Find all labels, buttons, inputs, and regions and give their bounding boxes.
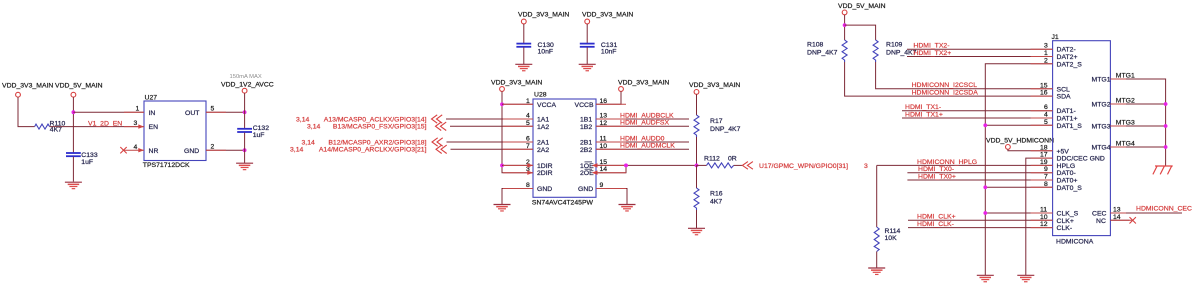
resistor R110: [35, 121, 66, 134]
ground (R114): [868, 268, 885, 274]
svg-text:3: 3: [134, 120, 138, 127]
pin arrow 2DIR: [527, 171, 533, 175]
ground (C130): [515, 64, 532, 70]
svg-text:1DIR: 1DIR: [537, 163, 553, 170]
svg-text:HDMICONA: HDMICONA: [1056, 239, 1094, 246]
svg-text:12: 12: [600, 120, 608, 127]
node junction on 5V line to IN: [72, 110, 76, 114]
pin arrow 2OE: [592, 171, 598, 175]
power flag VDD_3V3_MAIN (C130): [518, 12, 569, 24]
wire VCCB: [596, 91, 621, 104]
svg-text:VDD_3V3_MAIN: VDD_3V3_MAIN: [689, 82, 740, 89]
svg-text:5: 5: [526, 120, 530, 127]
node 2OE junction redraw: [624, 164, 628, 168]
svg-text:HDMI_AUDMCLK: HDMI_AUDMCLK: [620, 143, 675, 150]
svg-text:2B1: 2B1: [580, 140, 592, 147]
wire R17 to node: [696, 137, 698, 165]
resistor R17: [694, 115, 741, 137]
svg-text:EN: EN: [149, 124, 159, 131]
svg-text:HDMI_TX2-: HDMI_TX2-: [913, 43, 949, 50]
svg-text:10K: 10K: [885, 235, 898, 242]
wire HDMI_TX1+: [902, 117, 1053, 119]
svg-text:2B2: 2B2: [580, 147, 592, 154]
svg-text:HDMI_AUDBCLK: HDMI_AUDBCLK: [620, 112, 674, 119]
wire HDMI_CLK-: [908, 227, 1053, 229]
resistor R109: [873, 40, 917, 62]
svg-text:MTG1: MTG1: [1092, 77, 1111, 84]
wire 1A2: [450, 125, 533, 127]
off-page connector row4: [436, 145, 447, 153]
power flag VDD_3V3_MAIN (left): [2, 82, 53, 97]
svg-text:VDD_3V3_MAIN: VDD_3V3_MAIN: [618, 79, 669, 86]
svg-text:VDD_3V3_MAIN: VDD_3V3_MAIN: [2, 82, 53, 89]
svg-text:HDMICONN_I2CSDA: HDMICONN_I2CSDA: [912, 90, 979, 97]
svg-text:14: 14: [1113, 214, 1121, 221]
wire MTG3: [1110, 125, 1165, 127]
svg-text:6: 6: [1044, 104, 1048, 111]
node R108/R109 junction: [843, 23, 847, 27]
wire R114 to ground: [876, 252, 878, 268]
connector J1 box: [1052, 34, 1111, 246]
pin arrow 1OE: [592, 163, 598, 167]
svg-text:19: 19: [1040, 159, 1048, 166]
wire 1B2 HDMI_AUDFSX: [596, 125, 689, 127]
svg-text:1: 1: [526, 98, 530, 105]
ground (C133): [65, 182, 82, 188]
no-connect X on NR: [120, 147, 126, 153]
wire HDMI_TX0-: [907, 172, 1052, 174]
pin arrow EN: [138, 124, 144, 128]
off-page connector row3: [432, 138, 443, 146]
wire MTG2: [1110, 103, 1165, 105]
svg-text:NR: NR: [149, 148, 159, 155]
svg-text:10: 10: [1040, 214, 1048, 221]
svg-text:CLK+: CLK+: [1057, 218, 1074, 225]
svg-text:GND: GND: [537, 186, 552, 193]
svg-text:DAT1-: DAT1-: [1057, 108, 1076, 115]
svg-text:R109: R109: [886, 41, 903, 48]
svg-text:2OE: 2OE: [580, 170, 594, 177]
node OE pull junction: [695, 164, 699, 168]
svg-text:+5V: +5V: [1057, 148, 1070, 155]
wire from VDD_3V3_MAIN down to R110: [18, 97, 35, 127]
wire HDMI_TX1-: [902, 110, 1053, 112]
red pin stubs U28: [503, 104, 626, 188]
ground (U28 pin9): [619, 205, 636, 211]
svg-text:MTG1: MTG1: [1116, 73, 1135, 80]
red pin stubs J1: [1031, 49, 1133, 227]
wire 2B1 HDMI_AUDD0: [596, 141, 689, 143]
svg-text:VDD_5V_MAIN: VDD_5V_MAIN: [838, 3, 886, 10]
node MTG2 junction: [1164, 102, 1168, 106]
resistor R112: [697, 155, 743, 168]
svg-text:DAT0+: DAT0+: [1057, 178, 1078, 185]
svg-text:OUT: OUT: [185, 110, 200, 117]
wire DAT0_S shield: [985, 186, 1052, 188]
svg-text:MTG2: MTG2: [1092, 102, 1111, 109]
node GND junction: [243, 148, 247, 152]
svg-text:HDMI_CLK-: HDMI_CLK-: [917, 221, 954, 228]
svg-text:B12/MCASP0_AXR2/GPIO3[18]: B12/MCASP0_AXR2/GPIO3[18]: [328, 139, 426, 146]
red pin stubs U27: [124, 112, 226, 150]
svg-text:DAT0_S: DAT0_S: [1057, 185, 1083, 192]
wire MTG4: [1110, 146, 1165, 148]
power flag VDD_5V_HDMICONN: [986, 138, 1054, 150]
wire CEC: [1110, 212, 1182, 214]
svg-text:CLK-: CLK-: [1057, 225, 1073, 232]
wire R109 to I2CSCL: [876, 62, 1053, 89]
svg-text:U28: U28: [534, 91, 547, 98]
pin arrow 1DIR: [527, 163, 533, 167]
svg-text:4: 4: [526, 113, 530, 120]
svg-text:DAT2_S: DAT2_S: [1057, 61, 1083, 68]
node 1DIR junction: [500, 164, 504, 168]
svg-text:3: 3: [1044, 43, 1048, 50]
wire 2B2 HDMI_AUDMCLK: [596, 148, 689, 150]
svg-text:7: 7: [1044, 174, 1048, 181]
svg-text:R17: R17: [710, 118, 723, 125]
wire flag down: [844, 15, 846, 40]
capacitor C131: [580, 24, 618, 64]
wire C132 to GND rail: [244, 133, 246, 164]
node DAT0_S junction: [983, 185, 987, 189]
ground (shield line A): [977, 275, 994, 281]
wire R108 to I2CSDA: [845, 62, 1053, 96]
off-page connector row2: [436, 122, 447, 130]
wire GND pin8: [502, 189, 533, 205]
ground (C131): [579, 64, 596, 70]
no-connect X on pin 14: [1130, 217, 1136, 223]
svg-text:MTG4: MTG4: [1116, 141, 1135, 148]
svg-text:VCCB: VCCB: [575, 102, 594, 109]
resistor R16: [694, 188, 723, 210]
svg-text:1B1: 1B1: [580, 117, 592, 124]
svg-text:R16: R16: [710, 191, 723, 198]
svg-text:11: 11: [1040, 207, 1047, 214]
svg-text:4K7: 4K7: [50, 127, 62, 134]
svg-text:DAT1+: DAT1+: [1057, 116, 1078, 123]
svg-text:16: 16: [600, 98, 608, 105]
svg-text:HDMI_CLK+: HDMI_CLK+: [917, 214, 956, 221]
svg-text:7: 7: [526, 143, 530, 150]
svg-text:2A1: 2A1: [537, 140, 549, 147]
svg-text:13: 13: [600, 113, 608, 120]
wire GND pin9: [596, 189, 627, 205]
svg-text:B13/MCASP0_FSX/GPIO3[15]: B13/MCASP0_FSX/GPIO3[15]: [333, 124, 427, 131]
svg-text:VDD_3V3_MAIN: VDD_3V3_MAIN: [491, 79, 542, 86]
svg-text:MTG2: MTG2: [1116, 98, 1135, 105]
svg-text:DNP_4K7: DNP_4K7: [886, 49, 917, 56]
power flag VDD_5V_MAIN (left): [55, 82, 103, 97]
svg-text:HDMI_TX1-: HDMI_TX1-: [905, 104, 941, 111]
node MTG3 junction: [1164, 124, 1168, 128]
wire DAT1_S shield: [985, 124, 1052, 126]
svg-text:J1: J1: [1052, 34, 1059, 41]
svg-text:3,14: 3,14: [302, 139, 316, 146]
svg-text:15: 15: [600, 159, 608, 166]
svg-text:11: 11: [600, 136, 607, 143]
svg-text:GND: GND: [578, 186, 593, 193]
svg-text:10nF: 10nF: [538, 49, 554, 56]
wire HDMICONN_HPLG: [877, 164, 1053, 166]
svg-text:10: 10: [600, 143, 608, 150]
svg-text:3,14: 3,14: [290, 147, 304, 154]
node VCCA junction: [500, 102, 504, 106]
svg-text:5: 5: [211, 106, 215, 113]
ground (DDC/CEC GND): [1017, 275, 1034, 281]
wire GND pin2 to node: [206, 149, 245, 151]
svg-text:MTG3: MTG3: [1116, 120, 1135, 127]
wire HDMI_CLK+: [908, 219, 1053, 221]
node 2OE junction: [624, 164, 628, 168]
op-amp U27 regulator box: [143, 95, 206, 170]
svg-text:R112: R112: [704, 155, 720, 162]
svg-text:DNP_4K7: DNP_4K7: [710, 126, 741, 133]
svg-text:1: 1: [136, 106, 140, 113]
svg-text:HDMI_TX0-: HDMI_TX0-: [918, 166, 954, 173]
wire 2A1: [447, 141, 534, 143]
svg-text:DAT1_S: DAT1_S: [1057, 123, 1083, 130]
svg-text:VCCA: VCCA: [537, 102, 556, 109]
capacitor C132: [237, 125, 269, 139]
IC U28 box: [532, 91, 596, 206]
svg-text:13: 13: [1113, 207, 1121, 214]
wire HPLG down to R114: [876, 165, 878, 227]
wire to R109 top: [845, 25, 876, 40]
off-page connector row1: [432, 115, 443, 123]
wire 1B1 HDMI_AUDBCLK: [596, 118, 689, 120]
svg-text:VDD_5V_MAIN: VDD_5V_MAIN: [55, 82, 103, 89]
svg-text:A14/MCASP0_ARCLKX/GPIO3[21]: A14/MCASP0_ARCLKX/GPIO3[21]: [319, 147, 427, 154]
svg-text:V1_2D_EN: V1_2D_EN: [88, 120, 122, 127]
pin arrow NR: [138, 148, 144, 152]
svg-text:1A1: 1A1: [537, 117, 549, 124]
power flag VDD_5V_MAIN: [838, 3, 886, 15]
wire HDMI_TX2-: [907, 48, 1053, 50]
svg-text:TPS71712DCK: TPS71712DCK: [143, 162, 190, 169]
svg-text:150mA MAX: 150mA MAX: [230, 74, 262, 80]
svg-text:1: 1: [1044, 50, 1048, 57]
wire 1A1: [446, 118, 533, 120]
svg-text:1uF: 1uF: [81, 159, 93, 166]
svg-text:3: 3: [864, 163, 868, 170]
wire AVCC down through C132: [244, 93, 246, 128]
capacitor C133: [66, 152, 98, 166]
power flag VDD_3V3_MAIN (VCCB): [618, 79, 669, 91]
ground (U28 pin8): [494, 205, 511, 211]
svg-text:GND: GND: [184, 148, 199, 155]
svg-text:HDMICONN_I2CSCL: HDMICONN_I2CSCL: [912, 82, 978, 89]
wire +5V pin18: [1008, 149, 1053, 151]
wire DAT2_S shield: [985, 64, 1052, 275]
svg-text:8: 8: [1044, 181, 1048, 188]
svg-text:2: 2: [211, 144, 215, 151]
resistor R108: [807, 40, 847, 62]
svg-text:17: 17: [1040, 152, 1048, 159]
power flag VDD_1V2_AVCC: [221, 81, 274, 93]
svg-text:15: 15: [1040, 82, 1048, 89]
svg-text:U17/GPMC_WPN/GPIO0[31]: U17/GPMC_WPN/GPIO0[31]: [759, 163, 848, 170]
svg-text:R108: R108: [807, 41, 824, 48]
power flag VDD_3V3_MAIN (VCCA): [491, 79, 542, 91]
svg-text:5: 5: [1044, 119, 1048, 126]
svg-text:9: 9: [1044, 166, 1048, 173]
svg-text:2DIR: 2DIR: [537, 170, 553, 177]
svg-text:18: 18: [1040, 144, 1048, 151]
svg-text:MTG4: MTG4: [1092, 145, 1111, 152]
svg-text:HDMI_AUDFSX: HDMI_AUDFSX: [620, 120, 669, 127]
svg-text:SN74AVC4T245PW: SN74AVC4T245PW: [532, 199, 594, 206]
wire VDD_5V_MAIN vertical down to C133: [72, 97, 74, 153]
svg-text:SDA: SDA: [1057, 94, 1072, 101]
wire flag to R17: [696, 94, 698, 115]
svg-text:0R: 0R: [728, 155, 737, 162]
svg-text:3,14: 3,14: [307, 124, 321, 131]
wire node to R16: [696, 165, 698, 188]
wire C133 to ground: [72, 157, 74, 182]
svg-text:HDMI_TX1+: HDMI_TX1+: [905, 111, 943, 118]
wire R16 to ground: [696, 210, 698, 228]
svg-text:HPLG: HPLG: [1057, 163, 1076, 170]
svg-text:IN: IN: [149, 110, 156, 117]
svg-text:HDMICONN_CEC: HDMICONN_CEC: [1136, 206, 1192, 213]
wire HDMI_TX2+: [907, 56, 1053, 58]
svg-text:VDD_1V2_AVCC: VDD_1V2_AVCC: [221, 81, 274, 88]
wire R110 to U27 EN pin: [50, 126, 144, 128]
svg-text:DAT2+: DAT2+: [1057, 54, 1078, 61]
wire 5V to U27 IN: [73, 111, 144, 113]
ground (R16): [688, 228, 705, 234]
svg-text:VDD_3V3_MAIN: VDD_3V3_MAIN: [518, 12, 569, 19]
svg-text:HDMI_AUDD0: HDMI_AUDD0: [620, 135, 665, 142]
off-page connector (GPMC_WPN): [742, 162, 753, 170]
svg-text:CLK_S: CLK_S: [1057, 211, 1079, 218]
svg-text:VDD_3V3_MAIN: VDD_3V3_MAIN: [582, 12, 633, 19]
svg-text:4: 4: [1044, 112, 1048, 119]
wire HDMI_TX0+: [907, 179, 1052, 181]
wire to VCCA pin: [502, 103, 533, 105]
svg-text:DNP_4K7: DNP_4K7: [807, 49, 838, 56]
svg-text:MTG3: MTG3: [1092, 124, 1111, 131]
node OUT junction: [243, 110, 247, 114]
svg-text:DAT0-: DAT0-: [1057, 170, 1076, 177]
wire VCCA vertical: [502, 91, 533, 172]
wire OUT to node: [206, 111, 245, 113]
svg-text:1uF: 1uF: [253, 132, 265, 139]
svg-text:CEC: CEC: [1092, 211, 1107, 218]
svg-text:HDMI_TX0+: HDMI_TX0+: [918, 173, 956, 180]
svg-text:6: 6: [526, 136, 530, 143]
wire 2OE joins 1OE: [596, 165, 626, 172]
svg-text:HDMICONN_HPLG: HDMICONN_HPLG: [917, 159, 977, 166]
wire to 1DIR pin: [502, 164, 533, 166]
wire 1OE to R112 node: [596, 164, 697, 166]
svg-text:NC: NC: [1096, 218, 1106, 225]
svg-text:U27: U27: [145, 95, 158, 102]
node MTG4 junction: [1164, 145, 1168, 149]
capacitor C130: [516, 24, 554, 64]
svg-text:14: 14: [600, 166, 608, 173]
wire DDC/CEC GND pin17: [1026, 158, 1053, 275]
wire 2A2: [451, 148, 534, 150]
svg-text:4K7: 4K7: [710, 199, 722, 206]
power flag VDD_3V3_MAIN (R17): [689, 82, 740, 94]
node CLK_S junction: [983, 211, 987, 215]
svg-text:1B2: 1B2: [580, 124, 592, 131]
svg-text:2A2: 2A2: [537, 147, 549, 154]
svg-text:DDC/CEC GND: DDC/CEC GND: [1057, 156, 1105, 163]
earth ground (MTG): [1153, 166, 1173, 174]
svg-text:16: 16: [1040, 90, 1048, 97]
svg-text:3,14: 3,14: [296, 116, 310, 123]
resistor R114: [874, 227, 900, 252]
wire MTG1: [1110, 79, 1165, 166]
svg-text:9: 9: [600, 182, 604, 189]
wire NC stub: [1110, 219, 1129, 221]
svg-text:12: 12: [1040, 221, 1048, 228]
wire CLK_S shield: [985, 212, 1052, 214]
svg-text:HDMI_TX2+: HDMI_TX2+: [913, 50, 951, 57]
power flag VDD_3V3_MAIN (C131): [582, 12, 633, 24]
svg-text:1A2: 1A2: [537, 124, 549, 131]
svg-text:8: 8: [526, 182, 530, 189]
svg-text:2: 2: [1044, 57, 1048, 64]
svg-text:SCL: SCL: [1057, 86, 1071, 93]
node DAT1_S junction: [983, 123, 987, 127]
ground (U27): [236, 163, 253, 169]
svg-text:DAT2-: DAT2-: [1057, 47, 1076, 54]
svg-text:A13/MCASP0_ACLKX/GPIO3[14]: A13/MCASP0_ACLKX/GPIO3[14]: [324, 116, 427, 123]
svg-text:10nF: 10nF: [601, 49, 617, 56]
